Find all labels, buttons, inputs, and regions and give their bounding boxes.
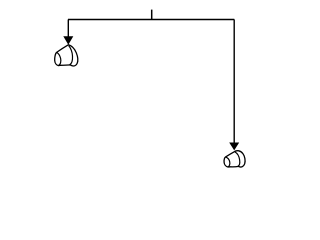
node callout tick 1	[151, 10, 153, 20]
arrowhead right	[229, 143, 239, 151]
arrowhead left	[63, 36, 73, 44]
grommet part left (body outline)	[55, 45, 78, 66]
grommet part left (small end face ellipse)	[57, 52, 61, 65]
wire right vertical leader	[233, 20, 235, 144]
grommet part right (body outline)	[224, 151, 245, 167]
grommet part left (large end inner rim arc)	[69, 46, 73, 65]
wire left vertical leader	[67, 20, 69, 38]
wire horizontal leader line	[68, 19, 234, 21]
grommet part right (small end face ellipse)	[226, 157, 230, 167]
grommet part right (large end inner rim arc)	[235, 152, 240, 167]
